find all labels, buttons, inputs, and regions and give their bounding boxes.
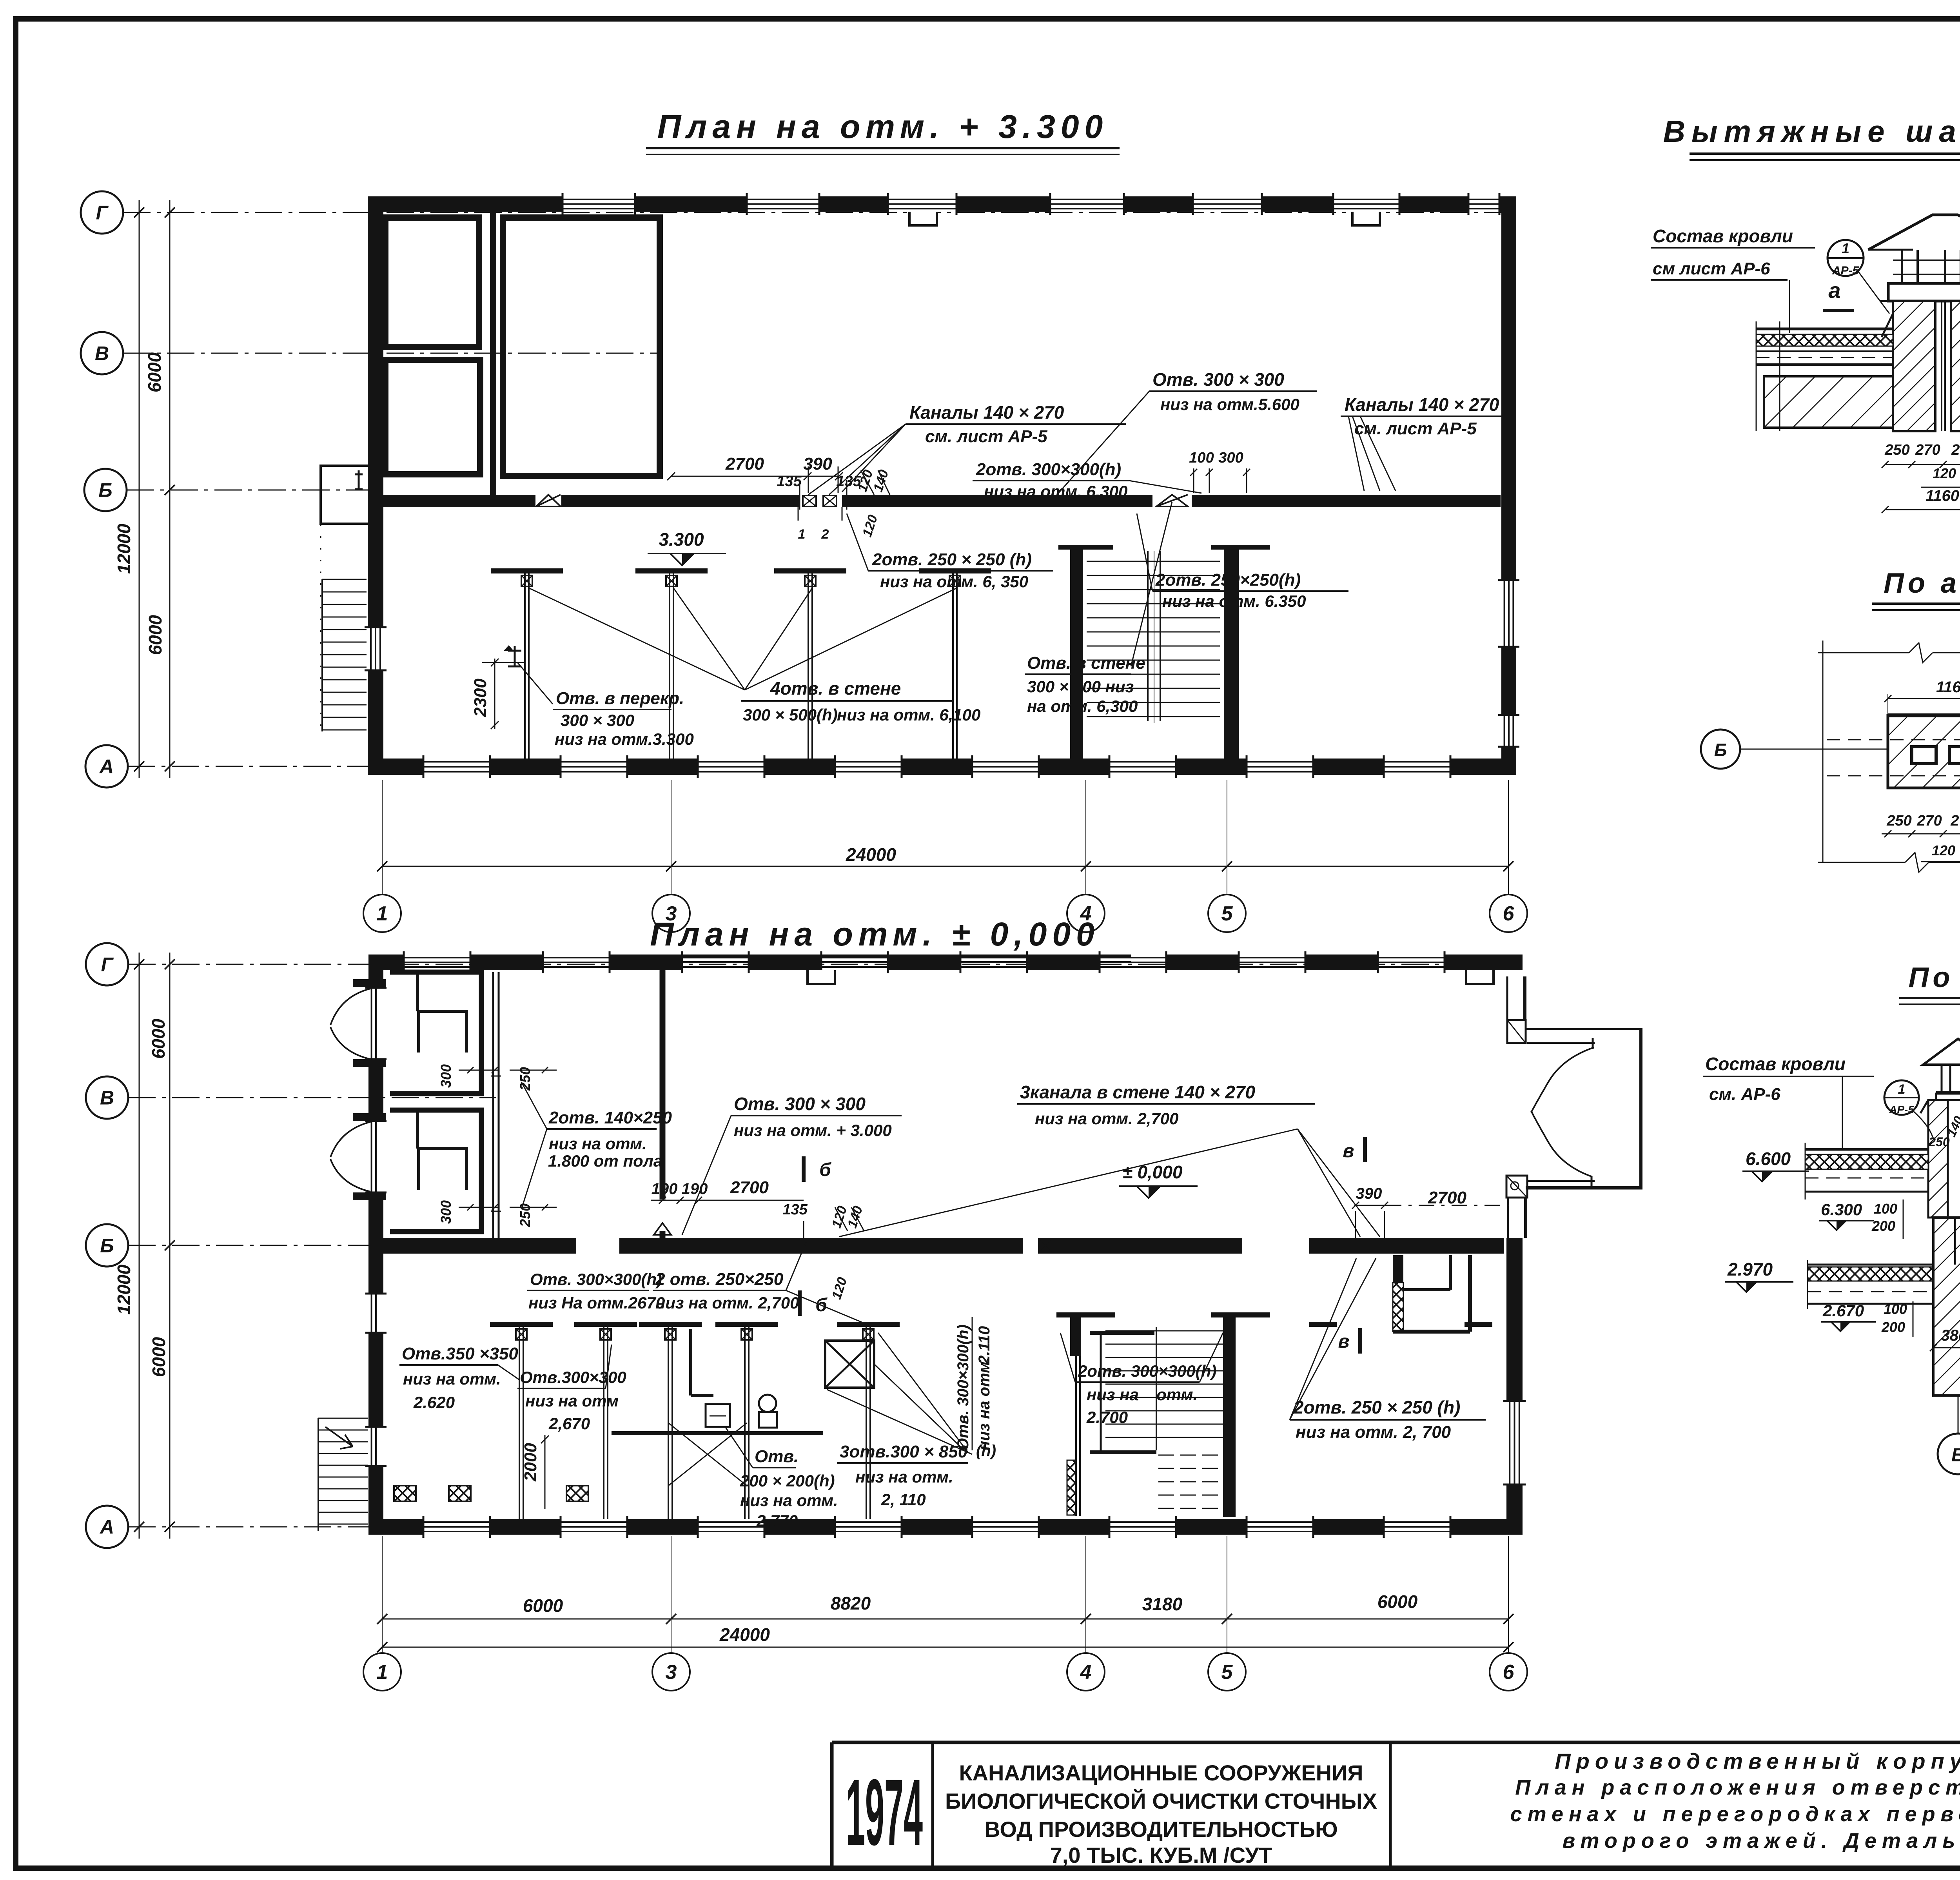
svg-text:1974: 1974	[846, 1760, 923, 1865]
svg-text:Каналы 140 × 270: Каналы 140 × 270	[909, 402, 1064, 423]
svg-text:2, 110: 2, 110	[881, 1490, 926, 1509]
ventilation channels in Б wall	[798, 495, 842, 542]
svg-text:1: 1	[1898, 1082, 1906, 1097]
umbrella posts and louvers	[1893, 250, 1960, 283]
section По б-б roof slab left	[1805, 1143, 1928, 1199]
svg-text:200: 200	[1881, 1319, 1905, 1335]
annotation: 2отв 300х300(h) низ 6.300	[973, 460, 1201, 501]
svg-text:По а-а: По а-а	[1884, 568, 1960, 599]
interior corridor wall x1258-1272 (lower)	[491, 972, 501, 1238]
svg-text:а: а	[1828, 278, 1840, 303]
svg-text:Состав кровли: Состав кровли	[1653, 226, 1793, 246]
svg-text:3.300: 3.300	[659, 529, 704, 550]
svg-text:Отв.350 ×350: Отв.350 ×350	[402, 1344, 518, 1363]
svg-text:100: 100	[1189, 450, 1214, 466]
lower plan title	[619, 916, 1131, 962]
svg-text:Производственный корпус: Производственный корпус.	[1555, 1749, 1960, 1773]
annotation: Отв. в перекр. 300х300 низ 3.300	[508, 646, 694, 748]
svg-text:стенах и перегородках п: стенах и перегородках первого и	[1510, 1802, 1960, 1826]
svg-text:Каналы 140 × 270: Каналы 140 × 270	[1345, 394, 1499, 415]
svg-text:см лист АР-6: см лист АР-6	[1653, 259, 1770, 278]
lower plan bottom dimensions	[377, 1536, 1514, 1653]
svg-text:8820: 8820	[831, 1593, 871, 1613]
svg-text:100: 100	[1874, 1201, 1897, 1217]
svg-text:б: б	[819, 1160, 831, 1180]
section По б-б level 6.600	[1742, 1149, 1809, 1181]
svg-text:120: 120	[1932, 842, 1955, 858]
svg-text:190: 190	[682, 1180, 708, 1198]
svg-text:А: А	[99, 756, 114, 778]
svg-text:В: В	[95, 343, 109, 365]
svg-text:В: В	[100, 1087, 114, 1109]
dims 100 300 near window	[1189, 450, 1250, 493]
svg-text:12000: 12000	[114, 524, 134, 574]
section marks a-a	[1823, 273, 1960, 310]
left break line of slab	[1756, 321, 1780, 431]
svg-text:270: 270	[1915, 442, 1940, 458]
svg-text:300: 300	[438, 1200, 454, 1224]
svg-text:6000: 6000	[149, 1337, 169, 1377]
lower plan column circles	[363, 1653, 1527, 1691]
svg-text:5: 5	[1221, 902, 1233, 925]
svg-text:4: 4	[1080, 1661, 1092, 1684]
upper plan right exterior wall	[1498, 196, 1519, 775]
svg-text:Отв. 300 × 300: Отв. 300 × 300	[734, 1094, 866, 1114]
svg-text:3: 3	[666, 1661, 677, 1684]
door jamb stubs on left wall	[353, 979, 386, 1200]
double door leaves (right entrance)	[1531, 1038, 1594, 1186]
svg-text:БИОЛОГИЧЕСКОЙ ОЧИСТКИ СТОЧНЫХ: БИОЛОГИЧЕСКОЙ ОЧИСТКИ СТОЧНЫХ	[945, 1789, 1377, 1813]
lower plan top exterior wall with windows	[368, 951, 1523, 973]
annotation: Отв 300х300 низ 5.600	[1058, 369, 1317, 493]
svg-text:2,670: 2,670	[548, 1414, 590, 1433]
svg-text:2000: 2000	[521, 1443, 540, 1482]
svg-text:низ на отм. 6,100: низ на отм. 6,100	[837, 706, 980, 724]
svg-text:120: 120	[1933, 465, 1956, 481]
annotation: Отв 350х350 низ 2.620	[399, 1344, 519, 1412]
section По б-б shaft walls	[1920, 1100, 1960, 1218]
label Состав кровли см. АР-6 (b-b)	[1703, 1054, 1874, 1149]
shaft dims 250 270 270 250	[1882, 442, 1960, 513]
annotation: 2отв 300х300(h) низ 2.700 (stair)	[1060, 1333, 1223, 1426]
svg-text:2700: 2700	[730, 1178, 769, 1197]
a-a hatched wall block	[1888, 715, 1960, 788]
upper plan axis lines	[123, 212, 1516, 766]
annotation: 4отв. в стене 300х500(h) низ 6,100	[529, 588, 980, 724]
svg-text:5: 5	[1221, 1661, 1233, 1684]
svg-text:2отв. 140×250: 2отв. 140×250	[548, 1108, 672, 1127]
flashing slopes at shaft base	[1880, 301, 1960, 337]
upper-left heavy room 1	[385, 218, 479, 347]
svg-text:низ на отм. 6.350: низ на отм. 6.350	[1162, 592, 1306, 610]
corridor partitions with caps (upper plan)	[491, 568, 991, 759]
svg-text:2700: 2700	[725, 454, 764, 474]
upper plan row Б wall	[368, 495, 1516, 507]
svg-text:2 отв. 250×250: 2 отв. 250×250	[655, 1270, 784, 1289]
svg-text:135: 135	[782, 1201, 808, 1218]
vestibule room 2	[390, 1110, 481, 1232]
svg-text:270: 270	[1916, 813, 1942, 829]
svg-text:135: 135	[777, 473, 802, 490]
pilaster notch lower top wall 1	[808, 970, 835, 984]
svg-text:3канала в стене 140 × 270: 3канала в стене 140 × 270	[1020, 1082, 1255, 1102]
svg-text:3отв.300 × 850: 3отв.300 × 850	[840, 1442, 968, 1461]
annotation: 2отв 250х250(h) низ 6,350	[847, 514, 1053, 591]
svg-text:низ на отм: низ на отм	[525, 1392, 619, 1410]
vertical dim 2000	[521, 1435, 549, 1509]
WC partitions and fixtures	[612, 1329, 823, 1433]
svg-text:2отв. 250 × 250 (h): 2отв. 250 × 250 (h)	[872, 550, 1032, 569]
section По б-б dim 380	[1930, 1327, 1960, 1351]
svg-text:6.300: 6.300	[1821, 1200, 1862, 1219]
svg-text:низ на отм.5.600: низ на отм.5.600	[1160, 395, 1299, 414]
annotation: Отв 300х300 низ 2,670	[517, 1345, 626, 1433]
svg-text:в: в	[1338, 1331, 1350, 1352]
svg-text:200: 200	[1871, 1218, 1895, 1234]
dims 2700 390 135 135 row	[667, 454, 891, 539]
upper plan left dimension lines	[114, 200, 175, 778]
outside stair left (lower plan)	[318, 1418, 368, 1531]
svg-text:2.770: 2.770	[756, 1512, 798, 1530]
upper plan bottom exterior wall with windows	[368, 755, 1516, 778]
svg-text:Отв.: Отв.	[755, 1447, 799, 1466]
lower plan left dimension lines	[114, 953, 175, 1539]
annotation: Каналы 140х270 см лист АР-5 (right)	[1341, 394, 1512, 491]
svg-text:низ на отм.: низ на отм.	[740, 1491, 838, 1510]
svg-text:По б-б: По б-б	[1909, 962, 1960, 993]
svg-text:12000: 12000	[114, 1265, 134, 1315]
section По б-б wall below	[1933, 1218, 1960, 1395]
level mark ±0,000	[1119, 1162, 1198, 1198]
svg-text:6000: 6000	[144, 352, 165, 392]
right small room walls (lower)	[1393, 1255, 1470, 1332]
pier below porch mouth	[1506, 1176, 1527, 1238]
small dims 300/250 markers top	[438, 1064, 557, 1227]
svg-text:6: 6	[1503, 1661, 1515, 1684]
lower plan bottom exterior wall with windows	[368, 1516, 1523, 1538]
svg-text:4отв. в стене: 4отв. в стене	[770, 678, 901, 699]
a-a dashed axis lines	[1827, 740, 1960, 776]
level mark 3.300	[636, 529, 726, 570]
annotation: Отв 300х300 низ +3.000	[682, 1094, 902, 1235]
svg-text:1: 1	[377, 1661, 388, 1684]
lower stairwell walls	[1056, 1312, 1270, 1517]
lower plan left exterior wall with door openings	[365, 955, 387, 1535]
в section marks	[1338, 1137, 1365, 1354]
svg-text:2.620: 2.620	[413, 1393, 455, 1412]
ventilation channels in lower Б wall	[1040, 1240, 1387, 1252]
svg-text:2отв. 250×250(h): 2отв. 250×250(h)	[1155, 570, 1301, 590]
svg-text:6000: 6000	[1377, 1591, 1418, 1612]
svg-text:300 × 300: 300 × 300	[561, 711, 634, 729]
a-a top dim 1160	[1884, 679, 1960, 715]
annotation: Отв 300х300(h) низ 2670	[527, 1270, 665, 1312]
upper stairwell walls	[1058, 545, 1270, 759]
section По б-б dims 700/140/250	[1928, 1094, 1960, 1149]
annotation: 3канала в стене 140х270 низ 2,700	[839, 1082, 1380, 1237]
svg-text:1: 1	[1842, 240, 1849, 256]
structural roof mass hatched	[1764, 376, 1960, 428]
opening marks on Б wall	[536, 495, 1188, 506]
svg-text:низ на отм. 2,700: низ на отм. 2,700	[1035, 1109, 1178, 1128]
interior wall on axis between rooms	[490, 207, 496, 507]
svg-text:низ на отм.3.300: низ на отм.3.300	[555, 730, 694, 748]
upper-left heavy room 3 (large)	[503, 218, 660, 476]
shaft with cross (lower plan)	[825, 1341, 874, 1388]
svg-text:КАНАЛИЗАЦИОННЫЕ СООРУЖЕНИЯ: КАНАЛИЗАЦИОННЫЕ СООРУЖЕНИЯ	[959, 1760, 1363, 1785]
svg-text:300: 300	[438, 1064, 454, 1088]
svg-text:6.600: 6.600	[1746, 1149, 1791, 1169]
svg-text:План на отм. + 3.300: План на отм. + 3.300	[657, 108, 1109, 145]
svg-text:Г: Г	[96, 202, 109, 224]
pilaster notch top wall 2	[1352, 212, 1380, 225]
svg-text:190: 190	[652, 1180, 678, 1198]
outside stair left (upper plan)	[322, 579, 367, 731]
annotation: Отв 200х200(h) низ 2.770	[725, 1427, 838, 1530]
detail circle 1/АР-5 (b-b)	[1884, 1080, 1933, 1137]
svg-text:200 × 200(h): 200 × 200(h)	[740, 1472, 835, 1490]
svg-text:АР-5: АР-5	[1889, 1103, 1914, 1116]
upper plan bottom dimension 24000	[377, 780, 1514, 895]
upper stairwell steps	[1087, 551, 1220, 723]
svg-text:7,0 ТЫС. КУБ.М /СУТ: 7,0 ТЫС. КУБ.М /СУТ	[1050, 1843, 1272, 1867]
svg-text:2: 2	[821, 527, 829, 542]
svg-text:низ на отм. 6.300: низ на отм. 6.300	[984, 482, 1127, 501]
svg-text:АР-5: АР-5	[1832, 264, 1860, 277]
svg-text:2.970: 2.970	[1727, 1259, 1773, 1279]
cross marks room SE	[668, 1423, 747, 1486]
svg-text:2.700: 2.700	[1086, 1408, 1128, 1426]
svg-text:на отм. 6,300: на отм. 6,300	[1027, 697, 1138, 715]
svg-text:отм.: отм.	[1156, 1385, 1198, 1404]
entry door arcs left top	[330, 989, 370, 1192]
sheet name block	[1510, 1749, 1960, 1853]
annotation: Каналы 140х270 см. лист АР-5 (left)	[808, 402, 1126, 495]
channel openings in a-a block	[1912, 747, 1960, 764]
annotation: 2отв 250х250(h) низ 2,700 (right)	[1290, 1258, 1486, 1442]
svg-text:низ на: низ на	[1087, 1385, 1139, 1404]
svg-text:Отв. 300×300(h): Отв. 300×300(h)	[955, 1325, 972, 1450]
svg-text:6000: 6000	[523, 1595, 563, 1616]
corner wall double lines above porch	[1507, 976, 1526, 1043]
caps right of stairwell (lower)	[1309, 1322, 1492, 1327]
section По б-б title	[1899, 962, 1960, 1004]
upper-left heavy room 2	[385, 360, 480, 474]
section По б-б level 2.670 + 100 200	[1821, 1301, 1913, 1337]
svg-text:в: в	[1343, 1141, 1354, 1161]
svg-text:390: 390	[803, 454, 832, 474]
svg-text:1160: 1160	[1936, 679, 1960, 696]
lower stairwell steps	[1105, 1327, 1223, 1508]
svg-text:Вытяжные шахты Ш-1 и Ш-: Вытяжные шахты Ш-1 и Ш-2	[1663, 114, 1960, 149]
svg-text:см. лист АР-5: см. лист АР-5	[925, 427, 1047, 446]
annotation: Отв. в стене 300х300 низ на отм 6.300	[1025, 502, 1172, 715]
svg-text:270: 270	[1951, 442, 1960, 458]
svg-text:ВОД ПРОИЗВОДИТЕЛЬНОСТЬЮ: ВОД ПРОИЗВОДИТЕЛЬНОСТЬЮ	[984, 1817, 1338, 1842]
vestibule room 1 (top-left)	[390, 972, 481, 1094]
shaft body hatched	[1893, 301, 1960, 431]
upper plan left exterior wall	[365, 196, 387, 775]
upper plan title	[646, 108, 1120, 154]
svg-text:низ на отм. 6, 350: низ на отм. 6, 350	[880, 572, 1028, 591]
svg-text:План расположения отвер: План расположения отверстий в	[1515, 1776, 1960, 1799]
title block frame	[832, 1742, 1960, 1866]
svg-text:низ на отм.: низ на отм.	[403, 1370, 501, 1388]
lower plan axis circles	[86, 943, 128, 1548]
po a-a title	[1872, 568, 1960, 610]
svg-text:Б: Б	[1714, 740, 1727, 760]
a-a bottom dims 250 270 270 250 / 120	[1882, 813, 1960, 862]
svg-text:300 × 500(h): 300 × 500(h)	[743, 706, 838, 724]
shaft section title	[1663, 114, 1960, 160]
lower corridor partitions with caps	[490, 1322, 900, 1519]
svg-text:2700: 2700	[1428, 1188, 1466, 1207]
annotation: 2отв 140х250 низ 1.800 от пола	[521, 1082, 672, 1209]
radiator marks bottom-left rooms	[394, 1486, 588, 1501]
lower plan row Б wall	[368, 1238, 1504, 1254]
svg-text:План на отм. ± 0,000: План на отм. ± 0,000	[650, 916, 1100, 953]
pilaster notch lower top wall 2	[1466, 970, 1494, 984]
rotated annotation: Отв 300х300(h) низ на отм 2.110	[955, 1317, 993, 1450]
svg-text:Б: Б	[1951, 1445, 1960, 1466]
svg-text:300 × 300 низ: 300 × 300 низ	[1027, 677, 1134, 696]
svg-text:см. АР-6: см. АР-6	[1709, 1085, 1780, 1104]
label Состав кровли см лист АР-6	[1651, 226, 1815, 333]
detail circle 1/АР-5	[1828, 240, 1889, 314]
svg-text:2отв. 300×300(h): 2отв. 300×300(h)	[976, 460, 1121, 479]
svg-text:низ на отм.: низ на отм.	[976, 1357, 993, 1450]
interior vertical wall x1690 (lower)	[654, 970, 671, 1238]
svg-text:2.110: 2.110	[976, 1326, 993, 1365]
svg-text:100: 100	[1884, 1301, 1907, 1317]
lower plan axis lines	[128, 964, 1523, 1527]
roof slab left of shaft	[1756, 329, 1893, 365]
lower right exterior wall below porch	[1503, 1238, 1526, 1535]
svg-text:низ на отм. 2,700: низ на отм. 2,700	[655, 1294, 799, 1312]
section По б-б axis Б circle	[1938, 1395, 1960, 1474]
axis Б circle for a-a	[1701, 729, 1888, 769]
svg-text:Отв. в перекр.: Отв. в перекр.	[556, 689, 684, 708]
svg-text:1160: 1160	[1926, 487, 1959, 504]
svg-text:1: 1	[798, 527, 806, 542]
right entrance porch (lower)	[1526, 1029, 1642, 1188]
svg-text:1.800 от пола: 1.800 от пола	[548, 1152, 662, 1170]
upper plan axis circles	[81, 191, 128, 788]
shaft umbrella (металлич. зонтик)	[1868, 215, 1960, 250]
svg-text:6: 6	[1503, 902, 1515, 925]
svg-text:Отв. в стене: Отв. в стене	[1027, 653, 1145, 673]
svg-text:3180: 3180	[1142, 1594, 1183, 1614]
svg-text:250: 250	[1928, 1135, 1950, 1149]
year 1974	[846, 1760, 923, 1865]
pilaster notch top wall 1	[909, 212, 937, 225]
annotation: 3отв 300х850(h) низ 2,110	[827, 1333, 996, 1509]
svg-text:2отв. 250 × 250 (h): 2отв. 250 × 250 (h)	[1293, 1397, 1460, 1417]
svg-text:270: 270	[1950, 813, 1960, 829]
svg-text:низ на отм.: низ на отм.	[855, 1468, 953, 1486]
svg-text:250: 250	[1884, 442, 1909, 458]
hatched pier left of stair (lower)	[1067, 1460, 1076, 1515]
svg-text:2300: 2300	[471, 679, 490, 717]
annotation: 2отв 250х250(h) низ 6.350 (right)	[1137, 514, 1348, 610]
svg-text:24000: 24000	[846, 844, 896, 865]
svg-text:300: 300	[1218, 450, 1243, 466]
section По б-б level 2.970	[1725, 1259, 1793, 1292]
svg-text:2отв. 300×300(h): 2отв. 300×300(h)	[1078, 1362, 1216, 1380]
vertical dim 2300	[471, 645, 525, 729]
break boundary of a-a detail	[1818, 641, 1960, 872]
annotation: 2 отв 250х250 низ 2,700	[653, 1239, 868, 1325]
svg-text:6000: 6000	[148, 1018, 169, 1059]
upper plan column circles	[363, 895, 1527, 932]
svg-text:Отв. 300×300(h): Отв. 300×300(h)	[530, 1270, 662, 1288]
svg-text:Г: Г	[101, 954, 114, 976]
svg-text:А: А	[99, 1516, 114, 1538]
dims 390 2700 (right)	[1352, 1185, 1509, 1238]
dims 190 190 2700 row	[651, 1178, 866, 1301]
svg-text:380: 380	[1941, 1327, 1960, 1344]
stair landing enclosure left	[321, 466, 368, 731]
б section marks	[800, 1156, 831, 1316]
section По б-б second floor slab	[1808, 1260, 1933, 1309]
svg-text:низ на отм.: низ на отм.	[549, 1134, 647, 1153]
svg-text:1: 1	[377, 902, 388, 925]
svg-text:низ на отм. + 3.000: низ на отм. + 3.000	[734, 1121, 892, 1140]
svg-text:2.670: 2.670	[1822, 1301, 1864, 1320]
svg-text:см. лист АР-5: см. лист АР-5	[1354, 419, 1477, 438]
svg-text:Б: Б	[98, 479, 112, 501]
svg-text:второго этажей. Детал: второго этажей. Деталь 1	[1563, 1829, 1960, 1853]
svg-text:низ На отм.2670: низ На отм.2670	[528, 1294, 665, 1312]
svg-text:низ на отм. 2, 700: низ на отм. 2, 700	[1296, 1423, 1451, 1442]
section По б-б umbrella	[1923, 1039, 1960, 1100]
svg-text:390: 390	[1356, 1185, 1382, 1202]
svg-text:Б: Б	[100, 1235, 114, 1257]
project name block	[945, 1760, 1377, 1867]
svg-text:24000: 24000	[719, 1624, 770, 1645]
svg-text:6000: 6000	[145, 615, 165, 655]
upper plan top exterior wall with windows	[368, 193, 1516, 215]
svg-text:Состав кровли: Состав кровли	[1705, 1054, 1846, 1074]
shaft collar	[1888, 283, 1960, 301]
svg-text:250: 250	[1886, 813, 1911, 829]
svg-text:± 0,000: ± 0,000	[1122, 1162, 1183, 1182]
svg-text:Отв. 300 × 300: Отв. 300 × 300	[1152, 369, 1284, 390]
section levels 6.300/100/200	[1819, 1199, 1903, 1239]
svg-text:Отв.300×300: Отв.300×300	[520, 1368, 626, 1386]
